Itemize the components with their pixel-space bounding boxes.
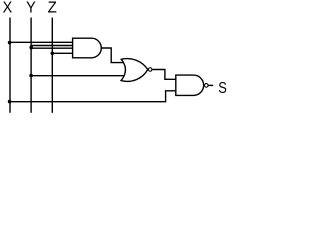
svg-text:Z: Z [48,0,57,16]
svg-text:X: X [3,0,13,16]
junction dot X-NAND [8,100,12,104]
wire AND output to NOR input 1 [101,48,124,63]
junction dot Y-NOR [29,74,33,78]
wire NAND output to S [208,84,213,86]
junction dot Z-AND [51,52,55,56]
junction dot X-AND [8,41,12,45]
wire X to AND input 1 [9,41,72,43]
Z input rail [51,18,53,113]
svg-text:Y: Y [26,0,36,16]
X input rail [9,18,11,113]
svg-text:S: S [218,80,227,97]
wire Y to NOR input 2 [31,75,123,77]
NOR gate G2 output bubble [148,68,152,72]
wire Y to AND input 3 [31,47,73,49]
wire Y to AND input 2 [31,45,73,47]
wire Z to AND input 4 [52,52,72,54]
AND gate G1 [73,38,102,58]
Y input rail [30,18,32,113]
NAND gate G3 output bubble [205,84,209,88]
wire X to NAND input 2 [9,91,175,102]
wire NOR output to NAND input 1 [152,70,175,80]
NAND gate G3 [176,75,204,95]
junction dot Y-AND (double) [29,45,33,49]
NOR gate G2 body [121,59,148,82]
